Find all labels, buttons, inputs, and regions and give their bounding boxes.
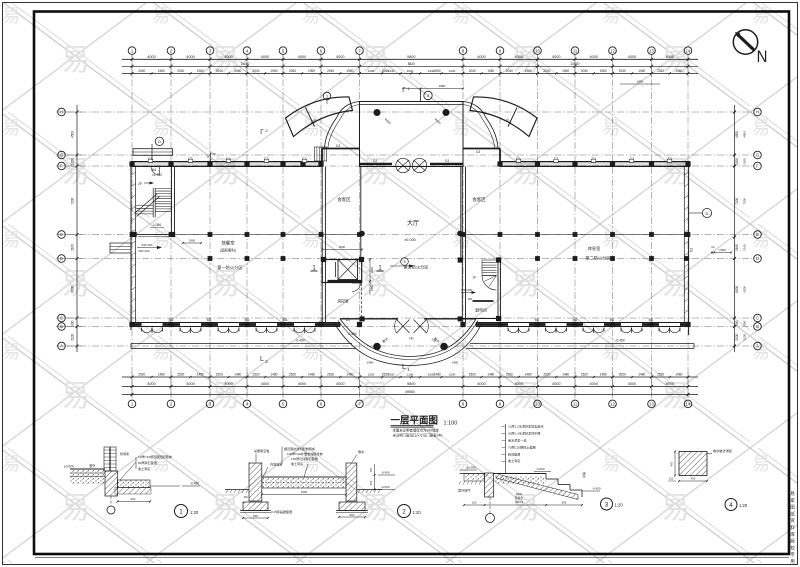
- top dimension line row mid: [122, 65, 698, 67]
- svg-text:±1.700: ±1.700: [152, 173, 162, 177]
- grid line axis 5: [282, 55, 284, 397]
- svg-text:1200: 1200: [368, 372, 375, 376]
- svg-text:-0.600: -0.600: [381, 485, 390, 489]
- svg-text:防滑条: 防滑条: [120, 451, 129, 456]
- svg-text:2520: 2520: [581, 372, 588, 376]
- grid axis D right circle: [754, 255, 762, 263]
- svg-text:2F: 2F: [138, 182, 142, 186]
- section mark above vestibule: [424, 91, 432, 99]
- svg-text:4000: 4000: [477, 382, 485, 386]
- svg-text:D: D: [706, 211, 709, 216]
- svg-text:4000: 4000: [552, 55, 560, 59]
- svg-text:4000: 4000: [628, 55, 636, 59]
- svg-text:20厚1:3水泥砂浆找平层: 20厚1:3水泥砂浆找平层: [508, 431, 541, 436]
- svg-text:1:20: 1:20: [615, 503, 624, 508]
- svg-text:G: G: [756, 153, 759, 158]
- d1 slab hatch under: [115, 488, 151, 495]
- top dimension ticks: [131, 58, 134, 61]
- svg-text:1480: 1480: [562, 372, 569, 376]
- svg-text:散水: 散水: [582, 472, 587, 478]
- svg-text:1200: 1200: [449, 69, 456, 73]
- bottom dimension line row 1: [122, 376, 698, 378]
- entrance double door left: [397, 320, 410, 334]
- left wing east wall: [321, 167, 323, 323]
- svg-text:M2: M2: [207, 318, 212, 322]
- svg-text:4000: 4000: [590, 382, 598, 386]
- elevator car: [338, 260, 358, 280]
- svg-text:4000: 4000: [590, 55, 598, 59]
- svg-text:4000: 4000: [336, 55, 344, 59]
- svg-text:900: 900: [735, 320, 739, 326]
- d2 left footing: [243, 502, 268, 511]
- svg-text:素水泥浆一道: 素水泥浆一道: [508, 438, 527, 443]
- svg-text:12: 12: [610, 48, 615, 53]
- svg-text:2520: 2520: [543, 372, 550, 376]
- svg-text:1480: 1480: [234, 372, 241, 376]
- svg-text:120: 120: [472, 501, 477, 505]
- stair rail: [152, 188, 154, 218]
- svg-text:4000: 4000: [552, 382, 560, 386]
- svg-text:D: D: [756, 256, 759, 261]
- grid line axis A: [67, 345, 752, 347]
- svg-text:1960: 1960: [562, 69, 569, 73]
- svg-text:13: 13: [649, 402, 654, 407]
- svg-text:2040: 2040: [543, 69, 550, 73]
- d1 dimension: [118, 501, 151, 503]
- svg-text:3440: 3440: [428, 69, 435, 73]
- stair upper treads: [155, 188, 171, 190]
- svg-text:5: 5: [403, 260, 405, 264]
- svg-text:2040: 2040: [469, 69, 476, 73]
- svg-text:70厚C15细石砜随打随抹: 70厚C15细石砜随打随抹: [138, 454, 173, 459]
- svg-text:内填油膏: 内填油膏: [270, 462, 282, 467]
- svg-text:4000: 4000: [515, 55, 523, 59]
- svg-text:1F: 1F: [473, 276, 477, 280]
- svg-text:100厚C20补偿收缩砜找坡: 100厚C20补偿收缩砜找坡: [287, 451, 323, 456]
- revolving door left: [396, 158, 410, 172]
- grid line axis 7: [359, 55, 361, 397]
- svg-text:WD×200: WD×200: [139, 249, 150, 253]
- right stair winder: [482, 276, 497, 291]
- svg-text:7200: 7200: [743, 198, 747, 205]
- svg-text:1500: 1500: [388, 372, 395, 376]
- svg-text:1480: 1480: [197, 372, 204, 376]
- porch annotation circle: [155, 137, 163, 145]
- svg-text:5400: 5400: [301, 490, 308, 494]
- right stair columns: [458, 257, 463, 262]
- lobby side wall left: [360, 167, 362, 260]
- svg-text:600: 600: [131, 497, 136, 501]
- svg-text:2040: 2040: [177, 69, 184, 73]
- right dimension ticks and numbers: [733, 111, 736, 114]
- svg-text:7200: 7200: [71, 197, 75, 204]
- svg-text:±0.000: ±0.000: [404, 238, 416, 242]
- vestibule south wall left: [360, 163, 393, 166]
- grid line axis 9: [499, 55, 501, 397]
- svg-text:4000: 4000: [298, 382, 306, 386]
- svg-text:2040: 2040: [252, 69, 259, 73]
- svg-text:1480: 1480: [346, 372, 353, 376]
- grid axis A right circle: [754, 342, 762, 350]
- svg-text:24000: 24000: [241, 62, 250, 66]
- plan title underline: [391, 425, 434, 427]
- grid line axis F: [67, 165, 752, 167]
- svg-text:室外地坪: 室外地坪: [458, 488, 470, 493]
- elevator door arc: [352, 283, 361, 292]
- d2 outdoor grade right: [357, 489, 382, 491]
- svg-text:1: 1: [179, 508, 183, 515]
- svg-text:1200: 1200: [71, 158, 75, 165]
- svg-text:2040: 2040: [327, 69, 334, 73]
- lobby round column right: [458, 231, 463, 236]
- right dimension line: [734, 105, 736, 352]
- svg-text:10: 10: [535, 48, 540, 53]
- svg-text:4000: 4000: [477, 55, 485, 59]
- interior columns row E: [130, 232, 135, 237]
- svg-text:-0.450: -0.450: [381, 471, 390, 475]
- grid line axis 10: [537, 55, 539, 397]
- svg-text:4000: 4000: [147, 55, 155, 59]
- svg-text:散水: 散水: [358, 449, 365, 454]
- svg-text:1960: 1960: [434, 69, 441, 73]
- svg-text:1480: 1480: [638, 372, 645, 376]
- svg-text:1500: 1500: [719, 248, 726, 252]
- svg-text:B: B: [756, 324, 759, 329]
- svg-text:第三防火分区: 第三防火分区: [403, 264, 428, 271]
- svg-text:12: 12: [610, 402, 615, 407]
- svg-text:150厚红砖碎石垫层: 150厚红砖碎石垫层: [291, 456, 318, 461]
- partition below elevator: [360, 283, 362, 318]
- grid line axis C: [67, 317, 752, 319]
- svg-text:碎石垫层: 碎石垫层: [508, 452, 520, 457]
- right stair treads: [482, 259, 497, 261]
- svg-text:第一防火分区: 第一防火分区: [217, 264, 242, 271]
- svg-text:1960: 1960: [270, 69, 277, 73]
- porch dim stack: [210, 152, 212, 162]
- svg-text:1200: 1200: [743, 158, 747, 165]
- grid axis G right circle: [754, 151, 762, 159]
- interior dim annotation left 2: [183, 242, 201, 244]
- fan section marker: [323, 92, 331, 100]
- svg-text:4000: 4000: [186, 55, 194, 59]
- svg-text:2040: 2040: [506, 69, 513, 73]
- svg-text:易家图纸资料库版权专用: 易家图纸资料库版权专用: [790, 491, 796, 566]
- svg-text:一层平面图: 一层平面图: [391, 416, 439, 427]
- svg-text:素土夸实: 素土夸实: [291, 461, 303, 466]
- svg-text:1500: 1500: [428, 372, 435, 376]
- d2 left wall: [249, 463, 262, 501]
- svg-text:M2: M2: [283, 318, 288, 322]
- svg-text:-0.060: -0.060: [536, 467, 545, 471]
- svg-text:12厚1:2水泥砂浆压实赶光: 12厚1:2水泥砂浆压实赶光: [508, 424, 544, 429]
- svg-text:1480: 1480: [487, 372, 494, 376]
- svg-text:L: L: [402, 364, 406, 371]
- svg-text:7200: 7200: [735, 197, 739, 204]
- svg-text:休息室: 休息室: [588, 245, 601, 252]
- svg-text:素土夸实: 素土夸实: [508, 458, 520, 463]
- svg-text:4000: 4000: [298, 55, 306, 59]
- svg-text:800: 800: [350, 513, 355, 517]
- d1 lower slab: [118, 480, 151, 488]
- vestibule south wall right: [430, 163, 463, 166]
- top dimension line row 1: [122, 58, 698, 60]
- grid line axis 4: [246, 55, 248, 397]
- svg-text:1200: 1200: [368, 69, 375, 73]
- svg-text:1960: 1960: [638, 69, 645, 73]
- vestibule column left: [374, 109, 380, 115]
- d4 dims: [679, 480, 707, 482]
- svg-text:6000: 6000: [71, 285, 75, 292]
- lobby front columns: [360, 316, 365, 321]
- svg-text:F: F: [756, 164, 759, 169]
- south wall right wing: [476, 322, 689, 324]
- svg-text:14: 14: [686, 48, 691, 53]
- svg-text:-0.450: -0.450: [615, 339, 625, 343]
- vestibule column right: [443, 109, 449, 115]
- svg-text:1200: 1200: [735, 158, 739, 165]
- svg-text:3: 3: [605, 501, 609, 508]
- svg-text:1800: 1800: [189, 239, 196, 243]
- d1 outdoor ground speckle: [70, 469, 105, 484]
- svg-text:1480: 1480: [158, 372, 165, 376]
- svg-text:1200: 1200: [449, 372, 456, 376]
- svg-text:±0.000: ±0.000: [64, 465, 74, 469]
- svg-text:1960: 1960: [158, 69, 165, 73]
- entrance steps hatch left: [315, 147, 327, 161]
- canopy fan left: [286, 97, 353, 137]
- svg-text:本图未注明者墙厚均为240墙体: 本图未注明者墙厚均为240墙体: [393, 428, 440, 433]
- stair lower treads: [136, 205, 153, 207]
- svg-text:1480: 1480: [367, 361, 374, 365]
- bottom dimension line total: [122, 394, 698, 396]
- svg-text:4500: 4500: [71, 131, 75, 138]
- svg-text:6000: 6000: [743, 286, 747, 293]
- svg-text:M1: M1: [169, 318, 174, 322]
- elevator shaft bottom wall: [328, 280, 362, 282]
- svg-text:2: 2: [402, 508, 406, 515]
- svg-text:2520: 2520: [469, 372, 476, 376]
- svg-text:1480: 1480: [434, 372, 441, 376]
- svg-text:2040: 2040: [216, 69, 223, 73]
- d3 dims: [464, 504, 582, 506]
- svg-text:C15砖基础垫层: C15砖基础垫层: [271, 509, 292, 514]
- svg-text:快餐室: 快餐室: [221, 240, 235, 247]
- svg-text:大厅: 大厅: [407, 219, 419, 227]
- grid axis H right circle: [754, 108, 762, 116]
- svg-text:4000: 4000: [666, 55, 674, 59]
- svg-text:2520: 2520: [506, 372, 513, 376]
- grid line axis 3: [209, 55, 211, 397]
- svg-text:49560: 49560: [405, 390, 415, 394]
- left dimension ticks and numbers: [76, 111, 79, 114]
- svg-text:14: 14: [686, 402, 691, 407]
- svg-text:C2: C2: [711, 245, 715, 249]
- svg-text:2100: 2100: [743, 334, 747, 341]
- beam line row E: [131, 234, 360, 236]
- d1 vertical hatched wall: [105, 471, 118, 496]
- d2 slab: [262, 477, 346, 488]
- svg-text:1960: 1960: [234, 69, 241, 73]
- svg-text:1880: 1880: [637, 80, 644, 84]
- grid line axis 8: [462, 55, 464, 397]
- svg-text:1960: 1960: [346, 69, 353, 73]
- svg-text:2160: 2160: [735, 244, 739, 251]
- grid line axis 11: [574, 55, 576, 397]
- svg-text:会客区: 会客区: [337, 196, 351, 203]
- svg-text:1:100: 1:100: [444, 421, 458, 427]
- interior dim annotation left: [137, 247, 160, 249]
- svg-text:2520: 2520: [177, 372, 184, 376]
- vestibule top dim: [402, 88, 463, 90]
- d4 hatched square: [679, 452, 707, 476]
- interior columns row D: [208, 256, 213, 261]
- svg-text:1: 1: [326, 95, 328, 99]
- right wing west wall: [461, 167, 463, 323]
- svg-text:2520: 2520: [252, 372, 259, 376]
- svg-text:采暖架空板: 采暖架空板: [254, 448, 269, 453]
- grid line axis E: [67, 234, 752, 236]
- d2 dims: [243, 517, 268, 519]
- svg-text:M2: M2: [649, 318, 654, 322]
- walkway lower edge: [131, 348, 356, 350]
- east annotation dim: [714, 252, 731, 254]
- svg-text:1:20: 1:20: [739, 503, 748, 508]
- svg-text:4000: 4000: [224, 55, 232, 59]
- left dimension line: [76, 105, 78, 352]
- svg-text:70厚C20硬性土垫层: 70厚C20硬性土垫层: [508, 445, 536, 450]
- elevator top dim: [322, 249, 362, 251]
- svg-text:2040: 2040: [581, 69, 588, 73]
- svg-text:1480: 1480: [308, 372, 315, 376]
- d2 right footing: [339, 502, 365, 511]
- svg-text:2160: 2160: [71, 244, 75, 251]
- canopy fan right: [470, 97, 537, 137]
- north side porch: [133, 149, 173, 156]
- svg-text:弱电间: 弱电间: [475, 308, 487, 313]
- svg-text:C4: C4: [336, 144, 340, 148]
- grid axis E right circle: [754, 231, 762, 239]
- west exterior wall: [130, 162, 132, 331]
- svg-text:W0×200: W0×200: [461, 288, 473, 292]
- svg-text:消控室: 消控室: [337, 299, 349, 304]
- svg-text:C4: C4: [476, 150, 480, 154]
- svg-text:2160: 2160: [743, 244, 747, 251]
- svg-text:M1: M1: [610, 318, 615, 322]
- lobby side wall right: [460, 167, 462, 258]
- grid line axis 1: [131, 55, 133, 397]
- svg-text:1100: 1100: [407, 372, 414, 376]
- svg-text:未注明门窗洞口尺寸见门窗表240: 未注明门窗洞口尺寸见门窗表240: [393, 433, 443, 438]
- svg-text:300×4: 300×4: [515, 500, 523, 504]
- svg-text:A: A: [756, 344, 759, 349]
- entrance walk bulge: [340, 319, 476, 357]
- north wall notch right: [463, 148, 500, 150]
- svg-text:2040: 2040: [138, 69, 145, 73]
- north arrow: [733, 30, 757, 54]
- svg-text:4000: 4000: [224, 382, 232, 386]
- bottom wall of stair bay: [462, 318, 500, 320]
- svg-text:1960: 1960: [308, 69, 315, 73]
- svg-text:素土夸实: 素土夸实: [138, 466, 150, 471]
- elevator dim line: [369, 258, 371, 295]
- svg-text:22800: 22800: [571, 62, 580, 66]
- grid line axis 14: [687, 55, 689, 397]
- lobby front wall: [340, 318, 398, 320]
- svg-text:会客区: 会客区: [472, 196, 486, 203]
- grid line axis 6: [320, 55, 322, 397]
- svg-text:-0.450: -0.450: [347, 332, 356, 336]
- svg-text:M1: M1: [535, 318, 540, 322]
- walkway end caps: [130, 344, 132, 349]
- svg-text:C4: C4: [445, 159, 449, 163]
- grid line axis 12: [612, 55, 614, 397]
- stairwell bottom wall: [131, 234, 175, 236]
- stair door arc: [151, 167, 160, 176]
- entrance double door right: [414, 320, 427, 334]
- svg-text:2520: 2520: [289, 372, 296, 376]
- stairwell east wall: [171, 167, 173, 235]
- svg-text:1960: 1960: [487, 69, 494, 73]
- svg-text:150: 150: [369, 467, 373, 472]
- grid line axis H: [67, 111, 752, 113]
- svg-text:M4: M4: [152, 168, 157, 172]
- lobby curtain wall curve left: [325, 102, 360, 148]
- bottom dimension line row 2: [122, 386, 698, 388]
- svg-text:-0.450: -0.450: [295, 339, 305, 343]
- top dimension line row 2: [122, 72, 698, 74]
- svg-text:11: 11: [573, 48, 578, 53]
- svg-text:1480: 1480: [525, 372, 532, 376]
- d2 right wall: [346, 463, 357, 501]
- grid axis C right circle: [754, 314, 762, 322]
- right stair east wall: [497, 260, 499, 319]
- d2 label circle: [398, 505, 411, 518]
- svg-text:450: 450: [369, 480, 373, 485]
- vestibule outline: [360, 102, 464, 167]
- grid axis B right circle: [754, 323, 762, 331]
- svg-text:1960: 1960: [600, 69, 607, 73]
- svg-text:C: C: [756, 316, 759, 321]
- east wall poche: [684, 172, 688, 175]
- canopy dim right: [620, 83, 660, 85]
- bottom dimension ticks: [131, 376, 134, 379]
- D annotation right: [702, 208, 711, 217]
- wall with windows north wall right wing: [500, 161, 690, 163]
- svg-text:2520: 2520: [619, 372, 626, 376]
- svg-text:4000: 4000: [261, 55, 269, 59]
- lobby round column left: [360, 231, 365, 236]
- north wall notch left: [322, 148, 360, 150]
- svg-text:1480: 1480: [452, 361, 459, 365]
- svg-text:散水做法详图: 散水做法详图: [713, 448, 732, 453]
- svg-text:4000: 4000: [261, 382, 269, 386]
- svg-text:400: 400: [670, 461, 674, 466]
- svg-text:4000: 4000: [336, 382, 344, 386]
- svg-text:M1: M1: [245, 318, 250, 322]
- svg-text:M9: M9: [468, 297, 472, 301]
- east exterior wall: [688, 162, 690, 336]
- svg-text:1400: 1400: [370, 284, 374, 291]
- svg-text:Γ: Γ: [260, 129, 264, 136]
- svg-text:-0.450: -0.450: [190, 482, 199, 486]
- west wall poche: [131, 172, 136, 175]
- svg-text:2520: 2520: [138, 372, 145, 376]
- svg-text:4000: 4000: [186, 382, 194, 386]
- svg-text:2520: 2520: [216, 372, 223, 376]
- svg-text:2000: 2000: [339, 245, 346, 249]
- elevator columns: [321, 257, 326, 262]
- d3 outdoor slab: [464, 474, 485, 482]
